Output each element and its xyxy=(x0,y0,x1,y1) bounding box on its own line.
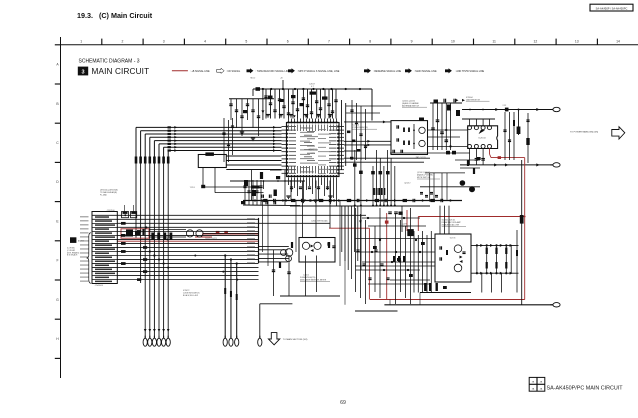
svg-text:: TAPE REC/CRO SIGNAL LINE: : TAPE REC/CRO SIGNAL LINE xyxy=(256,70,291,73)
parts right of mute xyxy=(467,160,469,166)
bead on rail start xyxy=(256,87,261,91)
svg-text:2: 2 xyxy=(122,40,124,44)
IC2601 left pins xyxy=(282,126,287,128)
IC2604 bottom wires xyxy=(469,148,471,165)
svg-text:19.3. (C) Main Circuit: 19.3. (C) Main Circuit xyxy=(77,11,153,20)
svg-text:: MAIN SIGNAL LINE: : MAIN SIGNAL LINE xyxy=(414,70,437,73)
svg-text:3: 3 xyxy=(81,70,84,76)
tuner extra parts xyxy=(351,100,353,160)
links antenna box to IC2604 xyxy=(428,129,468,131)
svg-text:14: 14 xyxy=(616,40,620,44)
tuner arrows near IC2604 xyxy=(456,99,459,102)
IC2601 body xyxy=(287,123,340,177)
transistor Q2241 xyxy=(419,140,425,146)
red path to tuner ground xyxy=(329,227,369,229)
svg-text:9: 9 xyxy=(411,40,413,44)
record bottom wire xyxy=(384,304,552,306)
red cluster box xyxy=(121,229,149,238)
svg-text:TO POWER MAIN (3/8) (3/5): TO POWER MAIN (3/8) (3/5) xyxy=(570,130,598,133)
brace left of connector xyxy=(87,233,91,284)
vertical wires mid tuner xyxy=(432,103,434,150)
record lower h wire xyxy=(355,310,398,312)
polar cap blobs near rail xyxy=(310,92,317,95)
svg-text:ANTENNA SWITCH: ANTENNA SWITCH xyxy=(402,104,420,107)
output terminal 3 xyxy=(553,303,560,307)
legend tpvw arrow xyxy=(445,68,452,73)
lower-left IC feed wires xyxy=(226,155,281,157)
wire to power main top xyxy=(462,109,553,111)
single terminal xyxy=(259,304,261,338)
right cluster verticals xyxy=(504,112,506,160)
Q2211 box xyxy=(391,121,428,155)
connector rungs with text xyxy=(92,214,117,216)
record vertical 517 xyxy=(516,230,518,293)
model number box top-right xyxy=(590,4,633,11)
svg-text:SA-AK450P / SA-AK450PC: SA-AK450P / SA-AK450PC xyxy=(596,6,628,10)
svg-text:PAT Q2211: PAT Q2211 xyxy=(416,156,427,159)
wire lower tuner xyxy=(344,157,430,159)
wires to Q2211 box middle xyxy=(344,140,391,142)
connector CN2603 block xyxy=(92,212,117,284)
black tag xyxy=(78,67,88,76)
record transistors xyxy=(454,245,462,253)
footer grid symbol xyxy=(529,377,545,391)
IC2601 bottom pins xyxy=(288,177,290,180)
red vertical right xyxy=(524,158,526,300)
svg-text:7: 7 xyxy=(328,40,330,44)
wire to output 2 xyxy=(460,164,553,166)
diode on branch xyxy=(518,110,520,136)
fan resistor row xyxy=(135,157,138,164)
dark module square xyxy=(407,229,414,236)
red transistor link xyxy=(195,236,212,238)
ruler ticks and numbers xyxy=(101,39,103,45)
sub-rail y181 xyxy=(230,180,305,182)
IC2604 body xyxy=(468,126,498,149)
svg-text:6: 6 xyxy=(287,40,289,44)
mid terminals xyxy=(223,338,227,346)
left ruler line xyxy=(60,37,62,378)
wire to Q2211 box top xyxy=(344,121,391,123)
IC2604 bottom pin circles xyxy=(468,144,472,148)
rail junctions xyxy=(261,199,263,201)
red bus line A xyxy=(117,240,258,242)
mic cluster box xyxy=(299,238,335,263)
svg-text:11: 11 xyxy=(492,40,496,44)
to main section arrow xyxy=(268,333,279,345)
output terminal CN top xyxy=(553,107,560,111)
svg-text:: +B SIGNAL LINE: : +B SIGNAL LINE xyxy=(190,70,210,73)
bus junction dots xyxy=(124,214,126,216)
below rail components xyxy=(388,211,392,213)
bead above box xyxy=(419,118,424,121)
svg-text:: MPX P SIGNAL S SIGNAL LINE,: : MPX P SIGNAL S SIGNAL LINE, LINE xyxy=(297,70,340,73)
bus right tiny labels xyxy=(247,217,255,220)
record amp box xyxy=(435,234,471,282)
mute switch grid xyxy=(425,172,465,174)
cluster resistor row xyxy=(151,233,154,241)
svg-text:FL-DAD: FL-DAD xyxy=(100,194,107,197)
IC2601 top pins xyxy=(288,119,290,122)
module box L-wires xyxy=(202,174,204,187)
IC2601 right pins xyxy=(339,126,344,128)
record box parts xyxy=(439,246,441,249)
svg-text:CAN RESISTOR: CAN RESISTOR xyxy=(466,98,481,101)
red bottom horizontal xyxy=(370,299,525,301)
red wire tuner horizontal xyxy=(491,157,525,159)
record verticals to bottom wire xyxy=(344,206,346,305)
IC2601 interior columns xyxy=(287,166,290,174)
record area h-links xyxy=(355,238,435,240)
long verticals to lower cluster xyxy=(302,181,304,239)
power rail VCC xyxy=(253,88,372,90)
bus wires xyxy=(117,214,366,216)
bus extension wires to mic cluster xyxy=(259,245,289,247)
IC upper-left stub xyxy=(282,80,284,89)
svg-text:5: 5 xyxy=(245,40,247,44)
cluster drop wires xyxy=(305,256,307,297)
bus bead components xyxy=(121,222,126,225)
more rail blobs xyxy=(291,95,296,98)
tuner h links xyxy=(346,105,391,107)
legend +B signal line (red) xyxy=(172,70,188,72)
svg-text:Q2472,Q2471: Q2472,Q2471 xyxy=(205,238,217,240)
legend reserve arrow xyxy=(364,68,371,73)
caps inside antenna box xyxy=(396,125,398,128)
svg-text:SA-AK450P/PC MAIN CIRCUIT: SA-AK450P/PC MAIN CIRCUIT xyxy=(547,386,624,392)
rail component row xyxy=(255,199,258,202)
cluster bead row xyxy=(251,186,260,189)
svg-text:IC2601: IC2601 xyxy=(309,148,318,152)
ground symbols under cap forest xyxy=(266,114,270,116)
svg-text:69: 69 xyxy=(340,400,346,406)
svg-text:MAIN CIRCUIT: MAIN CIRCUIT xyxy=(92,67,150,76)
svg-text:2.52: 2.52 xyxy=(503,105,507,107)
svg-text:C2602 W/P2602(B): C2602 W/P2602(B) xyxy=(311,221,328,223)
red wire from IC2604 pin xyxy=(489,148,491,154)
svg-text:13: 13 xyxy=(575,40,579,44)
svg-text:: AND TPVW SIGNAL LINE: : AND TPVW SIGNAL LINE xyxy=(455,70,484,73)
bus spine vertical xyxy=(258,218,260,263)
cluster dark components xyxy=(126,230,133,237)
below-rail verticals center xyxy=(341,206,343,252)
svg-text:CN2603: CN2603 xyxy=(95,285,104,287)
svg-text:F: F xyxy=(56,259,58,263)
dark transistors Q2142 xyxy=(460,180,466,186)
top ruler line xyxy=(61,44,638,46)
transistor circles xyxy=(302,242,309,249)
IC right vertical risers xyxy=(341,100,343,170)
svg-text:BU-A W, BU-L A W: BU-A W, BU-L A W xyxy=(183,294,198,297)
arrow inside IC2604 xyxy=(479,130,485,134)
mid terminal drops xyxy=(224,256,226,339)
transistor pair Q2472 xyxy=(186,230,193,237)
resistor row right of IC xyxy=(373,188,375,195)
FL wire drops xyxy=(144,164,146,339)
diode rows right xyxy=(471,244,519,246)
left verticals record section xyxy=(355,208,357,292)
left cap column wires xyxy=(229,98,274,100)
IC2604 top pin wires xyxy=(469,119,471,126)
cluster wires xyxy=(149,229,186,231)
cap forest above IC xyxy=(265,89,267,119)
svg-text:Q214 2: Q214 2 xyxy=(404,182,410,184)
svg-text:8: 8 xyxy=(369,40,371,44)
svg-text:SCHEMATIC DIAGRAM - 3: SCHEMATIC DIAGRAM - 3 xyxy=(79,59,140,65)
svg-text:G23 G: G23 G xyxy=(450,237,456,239)
svg-text:B B GR(A) R: B B GR(A) R xyxy=(67,254,78,257)
bottom parts under box xyxy=(424,283,426,291)
record grid verticals right xyxy=(476,245,478,273)
svg-text:TO MAIN SECTION (3/4): TO MAIN SECTION (3/4) xyxy=(283,338,308,341)
record left h-links xyxy=(362,217,420,219)
svg-text:IC26 04: IC26 04 xyxy=(478,137,486,139)
svg-text:4: 4 xyxy=(204,40,206,44)
svg-text:1: 1 xyxy=(80,40,82,44)
svg-text:C2F2160: C2F2160 xyxy=(107,210,115,212)
staircase verticals xyxy=(354,150,356,206)
cluster below-left of IC xyxy=(244,180,246,205)
IC2604 top pin circles xyxy=(468,126,472,130)
tab drops xyxy=(124,205,126,212)
red drop from mid wire xyxy=(417,217,419,232)
beads on staircase xyxy=(353,163,357,166)
red bus line B xyxy=(202,233,259,235)
mid rail xyxy=(243,200,462,202)
red wire mid horizontal xyxy=(418,216,524,218)
svg-text:10: 10 xyxy=(451,40,455,44)
record mid components row xyxy=(356,249,359,251)
far right tuner vertical xyxy=(527,113,529,163)
rail junction dots xyxy=(262,88,264,90)
mid rail second xyxy=(290,205,430,207)
svg-text:Y12.8: Y12.8 xyxy=(190,187,195,189)
svg-text:(B)SU-AB/W MARROW, METER: (B)SU-AB/W MARROW, METER xyxy=(300,279,327,282)
legend mpx arrow xyxy=(288,68,295,73)
IC left lower pads wires xyxy=(270,169,282,171)
connector left tiny labels xyxy=(80,216,89,217)
fan bus wires to IC left pins xyxy=(136,126,282,128)
cluster caps rails xyxy=(261,195,263,198)
connector top tabs xyxy=(122,212,129,218)
legend tape rec arrow xyxy=(247,68,254,73)
cluster verticals xyxy=(251,170,253,201)
record small beads xyxy=(373,246,377,249)
IC2601 interior pin labels xyxy=(289,125,297,128)
svg-text:12: 12 xyxy=(534,40,538,44)
IC2601 interior text texture xyxy=(300,127,310,130)
record grid dots xyxy=(476,244,478,246)
legend CD signal hollow arrow xyxy=(217,68,225,73)
verticals spine-to-mic zone xyxy=(262,201,264,253)
svg-text:3: 3 xyxy=(163,40,165,44)
red vertical 386 xyxy=(386,213,388,300)
cluster side parts xyxy=(291,242,293,248)
mic small transistors left xyxy=(281,250,287,256)
record mid verticals long xyxy=(413,231,415,293)
record left junction dots xyxy=(367,217,369,219)
legend main signal arrow xyxy=(405,68,412,73)
rail left drop xyxy=(262,89,264,120)
verticals crossing fan zone xyxy=(223,118,225,162)
record area arrows xyxy=(359,221,362,224)
beads right of IC xyxy=(347,131,350,134)
svg-text:: RESERVE SIGNAL LINE: : RESERVE SIGNAL LINE xyxy=(373,70,401,73)
module box right of resistors xyxy=(198,155,226,168)
svg-text:G: G xyxy=(56,298,59,302)
transistor Q2211 xyxy=(419,127,425,133)
right mic parts xyxy=(285,249,293,257)
right long vertical xyxy=(521,160,523,305)
IC bottom drops xyxy=(288,181,290,186)
svg-text:MPU: MPU xyxy=(311,153,316,155)
output terminal 2 xyxy=(553,163,560,167)
rail drop to tuner xyxy=(371,89,373,121)
red vertical 407 xyxy=(406,210,408,231)
top caps row tuner xyxy=(430,102,462,104)
svg-text:AT-25S: AT-25S xyxy=(78,240,85,243)
svg-text:IC2602: IC2602 xyxy=(352,125,360,127)
callout square xyxy=(70,237,76,243)
FL terminals xyxy=(143,338,147,346)
svg-text:: CD SIGNAL: : CD SIGNAL xyxy=(226,70,241,73)
verticals in record section xyxy=(439,206,441,234)
